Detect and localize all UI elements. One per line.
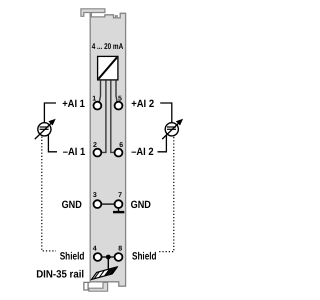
shield wire left (dotted)	[42, 137, 56, 251]
release tab (top latch)	[81, 9, 105, 16]
svg-text:GND: GND	[131, 199, 152, 211]
wire G2 top to +AI 2	[160, 103, 172, 123]
terminal pin 5	[115, 102, 123, 110]
svg-text:2: 2	[93, 142, 97, 149]
terminal pin 1	[94, 102, 102, 110]
svg-text:8: 8	[118, 246, 122, 253]
svg-text:4: 4	[93, 246, 97, 253]
svg-text:Shield: Shield	[60, 251, 85, 263]
svg-text:–AI 1: –AI 1	[63, 146, 85, 158]
wire G1 bottom to -AI 1	[48, 135, 57, 152]
current source G1 (left transducer)	[35, 119, 56, 139]
wire U1 to pin 1	[99, 80, 100, 102]
wire G1 top to +AI 1	[44, 103, 56, 123]
terminal pin 4	[94, 253, 102, 261]
terminal pin 6	[115, 149, 123, 157]
wire pin 3 to pin 7	[101, 203, 116, 205]
wire junction to chassis ground	[107, 257, 109, 270]
current source G2 (right transducer)	[162, 119, 183, 139]
wire U1 to pin 6	[111, 80, 115, 152]
module body 750-454	[90, 12, 125, 286]
ground GND bar under pin 7	[113, 209, 124, 213]
svg-text:4 ... 20 mA: 4 ... 20 mA	[92, 41, 124, 51]
wire pin 4 to pin 8	[101, 256, 116, 258]
terminal pin 3	[94, 200, 102, 208]
svg-text:–AI 2: –AI 2	[131, 146, 153, 158]
svg-text:5: 5	[118, 96, 122, 103]
svg-text:7: 7	[118, 192, 122, 199]
svg-text:DIN-35 rail: DIN-35 rail	[36, 269, 84, 281]
svg-text:GND: GND	[62, 199, 82, 211]
svg-text:1: 1	[92, 96, 96, 103]
svg-text:+AI 1: +AI 1	[62, 98, 85, 110]
wire G2 bottom to -AI 2	[158, 135, 167, 152]
DIN-35 rail cross-section	[89, 282, 108, 291]
terminal pin 2	[94, 149, 102, 157]
chassis ground symbol	[92, 267, 118, 280]
svg-text:Shield: Shield	[132, 251, 157, 263]
shield wire right (dotted)	[159, 137, 174, 252]
svg-text:3: 3	[93, 192, 97, 199]
terminal pin 7	[115, 200, 123, 208]
terminal pin 8	[115, 253, 123, 261]
mounting foot (bottom-left hook)	[84, 282, 90, 290]
wire U1 to pin 2	[102, 80, 106, 152]
wire U1 to pin 5	[116, 80, 117, 102]
svg-text:6: 6	[119, 142, 123, 149]
A/D converter U1	[98, 56, 118, 80]
junction dot between pin 4 and pin 8	[106, 255, 111, 260]
svg-text:+AI 2: +AI 2	[131, 98, 154, 110]
